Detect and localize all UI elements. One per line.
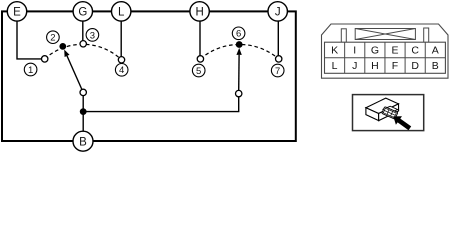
svg-text:G: G [371,45,379,57]
svg-text:L: L [332,60,338,72]
label 3 [86,29,99,42]
contact 7 [276,56,282,62]
svg-text:E: E [391,45,398,57]
connector 3d icon front face [366,108,379,121]
switch body frame [2,11,296,141]
svg-text:F: F [392,60,398,72]
wire G to contact 3 [82,21,84,40]
connector icon box [353,95,424,131]
connector 3d icon right face [379,104,399,121]
movable contact arm right [236,48,241,91]
contact 2 dot [59,43,66,50]
connector pin grid [325,42,446,73]
contact 1 [42,56,48,62]
svg-text:J: J [352,60,357,72]
terminal E [7,2,26,21]
svg-text:5: 5 [196,66,201,77]
wire H to contact 5 [199,21,201,56]
wire L to contact 4 [120,21,122,57]
junction dot [80,108,87,115]
dashed wiper travel arc contacts 1-4 [45,44,122,60]
left pivot [80,89,86,95]
terminal B [73,131,93,151]
svg-text:3: 3 [90,30,95,41]
wire J to contact 7 [277,21,279,56]
movable contact arm left [64,50,82,90]
svg-text:D: D [411,60,419,72]
connector keying box with cross [355,29,415,40]
label 1 [24,63,37,76]
contact 4 [118,57,124,63]
svg-text:E: E [13,7,21,19]
svg-text:H: H [195,7,203,19]
pointer arrow [393,116,411,130]
svg-text:7: 7 [275,66,280,77]
label 2 [47,31,60,44]
connector latch right [424,28,429,42]
svg-text:B: B [79,136,87,148]
svg-text:H: H [371,60,379,72]
svg-text:B: B [432,60,439,72]
contact 3 [80,41,86,47]
label 4 [115,64,128,77]
svg-text:C: C [411,45,419,57]
terminal H [190,2,209,21]
terminal G [73,2,92,21]
svg-text:6: 6 [236,29,241,40]
label 5 [192,64,205,77]
svg-text:G: G [78,7,87,19]
svg-text:2: 2 [50,33,55,44]
label 6 [232,27,245,40]
svg-text:J: J [275,7,281,19]
terminal L [112,2,131,21]
connector latch left [341,29,346,43]
right pivot [236,90,242,96]
connector shell [322,24,449,78]
connector 3d icon body top face [366,98,399,113]
label 7 [271,64,284,77]
svg-text:I: I [353,45,356,57]
wire junction to right pivot [83,97,239,112]
terminal J [268,2,287,21]
svg-text:A: A [432,45,439,57]
svg-text:L: L [118,7,125,19]
connector 3d icon socket top [383,106,398,113]
svg-text:1: 1 [28,65,33,76]
svg-text:4: 4 [119,65,124,76]
contact 6 dot [236,41,243,48]
dashed wiper travel arc contacts 5-7 [200,44,278,58]
contact 5 [197,56,203,62]
connector 3d icon socket grid face [382,107,398,120]
svg-text:K: K [331,45,338,57]
wire left pivot to terminal B [82,96,84,132]
wire E to contact 1 [17,21,42,59]
